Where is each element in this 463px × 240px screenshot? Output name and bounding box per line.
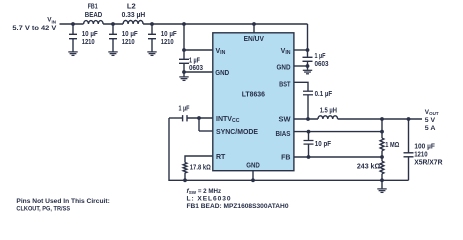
svg-text:5 V: 5 V [425,117,436,124]
capacitor C2 10uF [112,24,114,52]
svg-text:1210: 1210 [161,39,174,46]
svg-text:INTVCC: INTVCC [216,116,240,124]
svg-text:RT: RT [216,154,226,161]
node: SW [306,117,310,121]
capacitor C9 1uF INTVCC (horizontal) [169,115,213,131]
node: left 1uF [182,48,186,52]
svg-text:5 A: 5 A [425,125,436,132]
resistor R2 243k [380,157,384,180]
node: rail dots [71,22,75,26]
svg-text:VOUT: VOUT [425,109,439,116]
svg-text:LT8636: LT8636 [242,91,265,98]
svg-text:FB: FB [281,154,290,161]
capacitor C7 10pF [308,132,310,157]
capacitor C5 1uF 0603 right [294,50,308,70]
inductor L2 [123,20,143,24]
wire: EN/UV vertical [253,24,255,33]
bottom annotations [16,188,288,212]
svg-text:0603: 0603 [189,65,203,72]
svg-text:L: XEL6030: L: XEL6030 [187,195,231,202]
chip pin labels [215,36,291,169]
svg-text:fSW = 2 MHz: fSW = 2 MHz [187,188,222,195]
node: right 1uF [306,48,310,52]
svg-text:VIN: VIN [281,48,291,56]
svg-text:17.8 kΩ: 17.8 kΩ [190,164,211,171]
capacitor C4 1uF 0603 left [184,24,213,76]
wire: stem to output ground [381,180,383,188]
svg-text:FB1: FB1 [88,4,98,11]
svg-text:BEAD: BEAD [85,12,102,19]
svg-text:Pins Not Used In This Circuit:: Pins Not Used In This Circuit: [16,198,109,205]
capacitor C6 0.1uF BST [294,82,308,119]
svg-text:BIAS: BIAS [276,131,291,138]
svg-text:X5R/X7R: X5R/X7R [414,160,442,167]
ground [303,70,312,74]
svg-text:GND: GND [215,70,229,77]
svg-text:1 MΩ: 1 MΩ [385,142,399,149]
ground [108,52,117,56]
svg-text:10 pF: 10 pF [315,141,332,148]
svg-text:SW: SW [279,117,291,124]
svg-text:0603: 0603 [315,61,329,68]
svg-text:10 µF: 10 µF [161,31,178,38]
node: BIAS [307,130,311,134]
wire: main input rail segment 1 [60,23,84,25]
svg-text:1.5 µH: 1.5 µH [320,108,337,115]
op-amp U1 LT8636 body [213,33,294,171]
wire: BIAS line [294,131,382,133]
ground [147,52,156,56]
wire: rail segment 2 [103,23,123,25]
ground [68,52,77,56]
resistor R3 17.8k RT [183,156,213,180]
svg-text:VIN: VIN [216,48,226,56]
capacitor C1 10uF [72,24,74,52]
svg-text:5.7 V to 42 V: 5.7 V to 42 V [12,25,57,32]
ferrite bead FB1 [84,21,104,24]
capacitor C3 10uF [151,24,153,52]
svg-text:EN/UV: EN/UV [244,36,265,43]
inductor L1 1.5uH [318,116,338,119]
wire: FB line [294,156,382,158]
svg-text:1 µF: 1 µF [189,58,201,65]
svg-text:1210: 1210 [414,152,427,159]
wire: rail segment 3 [143,23,307,25]
svg-text:GND: GND [277,65,291,72]
node: FB [307,155,311,159]
svg-text:0.33 µH: 0.33 µH [122,12,146,19]
ground: output [377,189,386,193]
svg-text:VIN: VIN [47,16,56,24]
wire: bottom ground rail [169,118,409,180]
wire: chip bottom GND pin [252,171,254,181]
svg-text:L2: L2 [127,4,136,11]
svg-text:1210: 1210 [82,39,95,46]
svg-text:1 µF: 1 µF [315,53,327,60]
svg-text:10 µF: 10 µF [122,31,139,38]
resistor R1 1M [380,119,384,157]
svg-text:0.1 µF: 0.1 µF [315,91,333,98]
svg-text:FB1 BEAD: MPZ1608S300ATAH0: FB1 BEAD: MPZ1608S300ATAH0 [187,203,289,210]
svg-text:1 µF: 1 µF [179,106,191,113]
svg-text:243 kΩ: 243 kΩ [357,164,381,171]
ground [179,77,188,81]
svg-text:SYNC/MODE: SYNC/MODE [216,129,258,136]
svg-text:100 µF: 100 µF [414,143,435,150]
svg-text:BST: BST [279,82,291,89]
capacitor C8 100uF output [408,119,410,180]
node: bottom rail [183,178,187,182]
wire: right rail corner down [307,24,309,51]
svg-text:1210: 1210 [122,39,135,46]
svg-text:CLKOUT, PG, TR/SS: CLKOUT, PG, TR/SS [16,205,70,212]
wire: SW line [294,116,422,119]
node: INTVCC [197,116,201,120]
svg-text:GND: GND [246,162,260,169]
svg-text:10 µF: 10 µF [82,31,99,38]
